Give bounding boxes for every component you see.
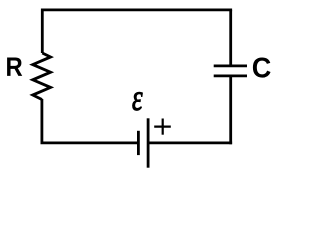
wire left upper (41, 9, 44, 54)
wire bottom right (148, 141, 232, 144)
wire right lower (229, 77, 232, 144)
battery B1 long plate (positive) (147, 118, 150, 167)
capacitor C1 top plate (214, 65, 247, 68)
label epsilon (EMF) (132, 92, 142, 110)
battery B1 short plate (negative) (137, 131, 140, 155)
capacitor C1 bottom plate (214, 75, 247, 78)
resistor R1 (33, 53, 51, 100)
wire left lower (41, 99, 44, 143)
plus sign (154, 119, 171, 135)
wire right upper (229, 10, 232, 65)
label C (253, 57, 271, 77)
label R (7, 57, 22, 75)
wire top (42, 8, 232, 11)
wire bottom left (41, 141, 138, 144)
